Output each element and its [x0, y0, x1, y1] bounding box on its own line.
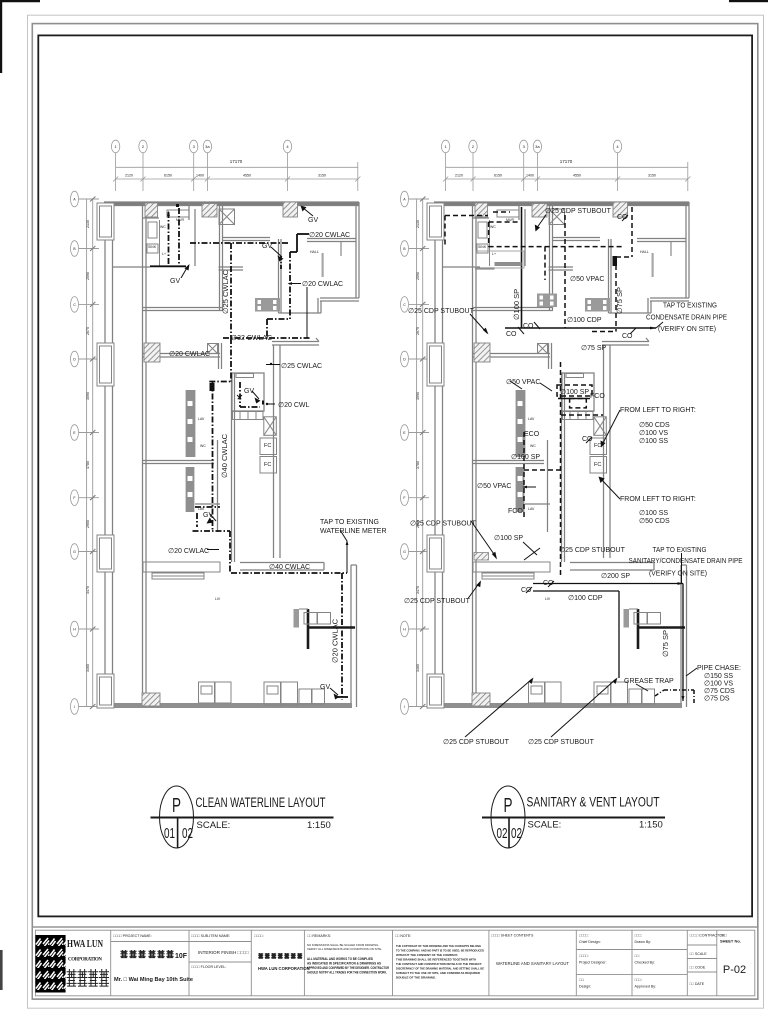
svg-text:∅75 SP: ∅75 SP — [581, 345, 606, 352]
svg-text:1:150: 1:150 — [307, 820, 331, 831]
svg-text:∅100 CDP: ∅100 CDP — [568, 595, 603, 602]
svg-text:10F: 10F — [175, 953, 188, 960]
svg-text:∅100 SP: ∅100 SP — [511, 454, 540, 461]
svg-text:∅50 VPAC: ∅50 VPAC — [477, 483, 511, 490]
svg-text:02: 02 — [497, 825, 508, 842]
svg-text:CO: CO — [521, 587, 532, 594]
svg-text:Mr. □ Wai Ming Bay 10th Suite: Mr. □ Wai Ming Bay 10th Suite — [114, 977, 193, 983]
svg-text:DISCREPANCY OF THE DRAWING MAT: DISCREPANCY OF THE DRAWING MATERIAL AND … — [396, 967, 484, 971]
svg-text:(VERIFY ON SITE): (VERIFY ON SITE) — [658, 326, 716, 333]
pipe: main waterline — [231, 573, 347, 700]
svg-text:SCALE:: SCALE: — [528, 820, 562, 831]
svg-text:∅25 CDP STUBOUT: ∅25 CDP STUBOUT — [408, 308, 475, 315]
designer columns — [579, 934, 725, 989]
GV arrows — [167, 206, 347, 700]
svg-text:□□□: □□□ — [720, 934, 728, 938]
svg-text:CO: CO — [617, 214, 628, 221]
svg-text:∅100 SP: ∅100 SP — [494, 535, 523, 542]
svg-text:∅20 CWLAC: ∅20 CWLAC — [331, 618, 340, 663]
svg-text:P-02: P-02 — [723, 964, 746, 976]
svg-text:□□□□ FLOOR LEVEL:: □□□□ FLOOR LEVEL: — [191, 965, 226, 969]
svg-text:1:150: 1:150 — [639, 820, 663, 831]
svg-text:Approved By:: Approved By: — [635, 985, 657, 989]
svg-text:□□ REMARKS:: □□ REMARKS: — [307, 934, 331, 938]
svg-text:∅100 SP: ∅100 SP — [512, 289, 521, 320]
dashed vent piping mid — [524, 247, 603, 578]
svg-text:DOUBLE OF THE DRAWING.: DOUBLE OF THE DRAWING. — [396, 976, 436, 980]
svg-text:∅25 CWLAC: ∅25 CWLAC — [281, 363, 322, 370]
svg-text:□□ CODE: □□ CODE — [690, 966, 706, 970]
svg-text:FROM LEFT TO RIGHT:: FROM LEFT TO RIGHT: — [620, 496, 696, 503]
svg-text:Drawn By:: Drawn By: — [635, 940, 652, 944]
svg-text:SHEET No.: SHEET No. — [720, 939, 741, 944]
drawing title right — [482, 786, 665, 848]
svg-text:THE CONTRACT AND CONSTRUCTION: THE CONTRACT AND CONSTRUCTION DETAILS OF… — [396, 962, 482, 966]
corner mark top-left — [0, 0, 40, 73]
svg-text:CO: CO — [506, 331, 517, 338]
svg-text:∅25 CDP STUBOUT: ∅25 CDP STUBOUT — [528, 739, 595, 746]
svg-text:GV: GV — [320, 684, 330, 691]
svg-text:CLEAN WATERLINE LAYOUT: CLEAN WATERLINE LAYOUT — [196, 795, 326, 810]
svg-text:TAP TO EXISTING: TAP TO EXISTING — [653, 547, 707, 554]
svg-text:THE COPYRIGHT OF THIS DRAWING: THE COPYRIGHT OF THIS DRAWING AND THE CO… — [396, 944, 481, 948]
pipe: wc room riser — [169, 208, 311, 338]
svg-text:HWA LUN CORPORATION: HWA LUN CORPORATION — [258, 966, 310, 971]
svg-text:□□□□ PROJECT NAME:: □□□□ PROJECT NAME: — [113, 934, 152, 938]
svg-text:∅75 DS: ∅75 DS — [704, 696, 730, 703]
svg-text:CO: CO — [523, 323, 534, 330]
svg-text:THIS DRAWING SHALL BE REFERENC: THIS DRAWING SHALL BE REFERENCED TOGETHE… — [396, 958, 477, 962]
svg-text:∅75 SP: ∅75 SP — [615, 287, 624, 314]
svg-text:Checked By:: Checked By: — [635, 961, 655, 965]
svg-text:Chief Design:: Chief Design: — [579, 940, 601, 944]
svg-text:∅100 VS: ∅100 VS — [639, 430, 668, 437]
svg-text:SHOULD NOTIFY ALL TRADES FOR T: SHOULD NOTIFY ALL TRADES FOR THE CONNECT… — [307, 971, 387, 975]
svg-text:∅25 CWLAC: ∅25 CWLAC — [221, 269, 230, 314]
svg-text:∅20 CWLAC: ∅20 CWLAC — [309, 232, 350, 239]
svg-text:∅75 CDS: ∅75 CDS — [704, 688, 735, 695]
svg-text:∅50 CDS: ∅50 CDS — [639, 518, 670, 525]
svg-text:GV: GV — [170, 278, 180, 285]
edge mark left lower — [0, 950, 3, 990]
svg-text:ECO: ECO — [524, 431, 540, 438]
svg-text:∅25 CDP STUBOUT: ∅25 CDP STUBOUT — [404, 598, 471, 605]
svg-text:∅50 CDS: ∅50 CDS — [639, 422, 670, 429]
svg-text:GV: GV — [308, 217, 318, 224]
border inner black frame — [38, 35, 752, 916]
svg-text:∅100 CDP: ∅100 CDP — [567, 317, 602, 324]
svg-text:01: 01 — [164, 825, 175, 842]
svg-text:∅150 SS: ∅150 SS — [704, 673, 733, 680]
svg-text:GV: GV — [203, 512, 213, 519]
svg-text:(VERIFY ON SITE): (VERIFY ON SITE) — [649, 571, 707, 578]
svg-text:∅25 CDP STUBOUT: ∅25 CDP STUBOUT — [559, 547, 626, 554]
sanitary labels right plan — [404, 208, 743, 746]
grease trap dashed elbow — [655, 690, 694, 703]
svg-text:□□□□:: □□□□: — [579, 934, 589, 938]
pipe: entry branch solid — [150, 206, 309, 339]
svg-text:∅32 CWLAC: ∅32 CWLAC — [231, 335, 272, 342]
corner mark top-right — [729, 0, 768, 2]
svg-text:HWA LUN: HWA LUN — [67, 939, 103, 950]
svg-text:ALL MATERIAL AND WORKS TO BE C: ALL MATERIAL AND WORKS TO BE COMPLIED — [307, 957, 374, 961]
svg-text:AS INDICATED IN SPECIFICATION: AS INDICATED IN SPECIFICATION & DRAWINGS… — [307, 962, 381, 966]
svg-text:∅20 CWLAC: ∅20 CWLAC — [168, 548, 209, 555]
svg-text:GV: GV — [244, 388, 254, 395]
svg-text:GREASE TRAP: GREASE TRAP — [624, 678, 674, 685]
svg-text:□□□□:: □□□□: — [254, 934, 264, 938]
svg-text:∅50 VPAC: ∅50 VPAC — [506, 379, 540, 386]
svg-text:02: 02 — [182, 825, 193, 842]
waterline labels left plan — [168, 217, 387, 691]
svg-text:P: P — [504, 795, 513, 817]
svg-text:02: 02 — [511, 825, 522, 842]
svg-text:CO: CO — [543, 580, 554, 587]
svg-text:□□ DATE: □□ DATE — [690, 982, 705, 986]
svg-text:∅25 CDP STUBOUT: ∅25 CDP STUBOUT — [410, 521, 477, 528]
svg-text:∅25 CDP STUBOUT: ∅25 CDP STUBOUT — [443, 739, 510, 746]
svg-text:Project Designer:: Project Designer: — [579, 961, 607, 965]
svg-text:WITHOUT THE CONSENT OF THE COM: WITHOUT THE CONSENT OF THE COMPANY. — [396, 953, 458, 957]
CO tick symbols — [518, 215, 636, 593]
svg-text:∅25 CDP STUBOUT: ∅25 CDP STUBOUT — [545, 208, 612, 215]
svg-text:CORPORATION: CORPORATION — [68, 958, 102, 963]
svg-text:□□:: □□: — [635, 954, 640, 958]
svg-text:CO: CO — [582, 436, 593, 443]
svg-text:TO THE COMPANY, AND NO PART IS: TO THE COMPANY, AND NO PART IS TO BE USE… — [396, 949, 485, 953]
svg-text:□□ SCALE: □□ SCALE — [690, 952, 708, 956]
svg-text:SANITARY/CONDENSATE DRAIN PIPE: SANITARY/CONDENSATE DRAIN PIPE — [629, 558, 743, 565]
main CO collector line upper — [505, 207, 656, 399]
drawing title left — [151, 786, 334, 848]
svg-text:∅20 CWLAC: ∅20 CWLAC — [169, 351, 210, 358]
svg-text:□□:: □□: — [579, 978, 584, 982]
leaders — [465, 215, 697, 737]
svg-text:INTERIOR FINISH □□□□: INTERIOR FINISH □□□□ — [198, 950, 249, 955]
left plan shell — [71, 140, 361, 714]
svg-text:∅100 SS: ∅100 SS — [639, 438, 668, 445]
right plan upper lavatory partition — [474, 553, 489, 561]
company chinese name — [67, 969, 109, 986]
RIGHT PLAN : sanitary & vent overlay — [445, 207, 697, 737]
svg-text:∅20 CWL: ∅20 CWL — [278, 402, 309, 409]
svg-text:TAP TO EXISTING: TAP TO EXISTING — [663, 303, 717, 310]
svg-text:□□ NOTE:: □□ NOTE: — [395, 934, 411, 938]
svg-text:∅100 SS: ∅100 SS — [639, 510, 668, 517]
svg-text:WATERLINE METER: WATERLINE METER — [320, 528, 387, 535]
svg-text:∅20 CWLAC: ∅20 CWLAC — [302, 281, 343, 288]
right plan shell — [401, 140, 691, 714]
project name cell — [113, 934, 152, 938]
svg-text:WATERLINE AND SANITARY LAYOUT: WATERLINE AND SANITARY LAYOUT — [496, 961, 569, 966]
dashed vent piping upper — [445, 207, 632, 332]
LEFT PLAN : clean waterline overlay — [150, 206, 348, 701]
svg-text:∅75 SP: ∅75 SP — [661, 630, 670, 657]
pipe: kitchen riser — [193, 338, 264, 573]
svg-text:CONDENSATE DRAIN PIPE: CONDENSATE DRAIN PIPE — [646, 315, 727, 322]
svg-text:APPROVED AND CONFIRMED BY THE: APPROVED AND CONFIRMED BY THE DESIGNER. … — [307, 966, 390, 970]
svg-text:□□□:: □□□: — [635, 934, 643, 938]
svg-text:SUBJECT TO THE USE OF SITE, AN: SUBJECT TO THE USE OF SITE, AND CONFIRM … — [396, 971, 481, 975]
svg-text:∅40 CWLAC: ∅40 CWLAC — [220, 433, 229, 478]
svg-text:SANITARY & VENT LAYOUT: SANITARY & VENT LAYOUT — [527, 795, 660, 810]
svg-text:FROM LEFT TO RIGHT:: FROM LEFT TO RIGHT: — [620, 407, 696, 414]
svg-text:□□□:: □□□: — [635, 978, 643, 982]
svg-text:∅50 VPAC: ∅50 VPAC — [570, 276, 604, 283]
svg-text:P: P — [172, 795, 181, 817]
svg-text:CO: CO — [622, 333, 633, 340]
svg-text:FCO: FCO — [508, 508, 523, 515]
svg-text:Design:: Design: — [579, 985, 591, 989]
svg-text:TAP TO EXISTING: TAP TO EXISTING — [320, 519, 379, 526]
svg-text:∅40 CWLAC: ∅40 CWLAC — [269, 564, 310, 571]
svg-text:PIPE CHASE:: PIPE CHASE: — [697, 665, 741, 672]
company logo — [35, 935, 65, 993]
svg-text:□□□□ SUB-ITEM NAME:: □□□□ SUB-ITEM NAME: — [191, 934, 230, 938]
svg-text:VERIFY ALL DIMENSIONS AND COND: VERIFY ALL DIMENSIONS AND CONDITIONS ON … — [307, 947, 382, 951]
svg-text:□□□□:: □□□□: — [579, 954, 589, 958]
svg-text:FCO: FCO — [590, 393, 605, 400]
svg-text:□□□□ SHEET CONTENTS: □□□□ SHEET CONTENTS — [491, 934, 534, 938]
svg-text:GV: GV — [262, 243, 272, 250]
svg-text:∅100 SP: ∅100 SP — [560, 389, 589, 396]
svg-text:∅100 VS: ∅100 VS — [704, 681, 733, 688]
main sanitary line lower — [533, 584, 683, 702]
svg-text:SCALE:: SCALE: — [197, 820, 231, 831]
svg-text:∅200 SP: ∅200 SP — [601, 573, 630, 580]
